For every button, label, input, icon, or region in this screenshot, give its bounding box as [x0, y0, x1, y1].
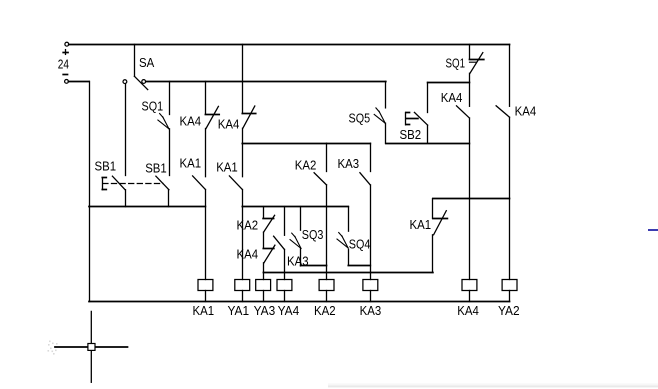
wire bottom bus [89, 301, 510, 303]
svg-text:SQ1: SQ1 [142, 99, 164, 114]
faint grid speckle [48, 341, 58, 355]
pushbutton SB1 (right pole) [156, 176, 169, 190]
contact SQ1 NC (top right) [469, 44, 471, 59]
cursor crosshair vertical [90, 311, 92, 382]
contact KA4 NC (second) [242, 113, 255, 115]
coil KA4 [462, 280, 477, 291]
SB2 actuator E bracket [405, 113, 407, 125]
contact KA2 NC [263, 207, 265, 219]
limit switch SQ3 [300, 207, 302, 231]
svg-text:KA4: KA4 [457, 303, 479, 318]
wire feed drop from top rail [242, 44, 244, 113]
svg-text:KA1: KA1 [193, 303, 215, 318]
contact KA3 NO [370, 143, 372, 171]
svg-text:KA2: KA2 [295, 157, 317, 172]
svg-text:KA4: KA4 [441, 90, 463, 105]
limit switch SQ4 [348, 207, 350, 232]
faint window edge bottom right [328, 383, 658, 385]
contact KA1 NO (second) [229, 176, 242, 190]
svg-text:YA4: YA4 [278, 303, 300, 318]
coil YA3 [256, 280, 271, 291]
cursor pickbox [88, 344, 95, 351]
contact KA4 NO (YA4 branch) [284, 207, 286, 236]
SB2 actuator dashed link [406, 118, 418, 120]
wire SQ3 to KA2 coil line [301, 265, 327, 267]
contact KA1 NC [432, 199, 434, 219]
contact KA2 NO [326, 143, 328, 171]
minus sign [63, 74, 67, 76]
pushbutton SB1 (left pole) [112, 176, 125, 190]
wire rail C [263, 272, 433, 274]
limit switch SQ1 (left) [169, 81, 171, 114]
svg-text:24: 24 [58, 57, 69, 72]
blue mark right edge [648, 229, 658, 231]
terminal + (supply positive) [65, 42, 69, 46]
wire top rail [69, 44, 510, 46]
svg-text:YA3: YA3 [254, 303, 276, 318]
svg-text:KA1: KA1 [180, 156, 202, 171]
SB1 actuator dashed link [103, 183, 163, 185]
SB1 actuator E bracket [102, 178, 104, 190]
cursor crosshair horizontal [55, 346, 128, 348]
contact KA4 NC (series below KA2) [263, 248, 274, 250]
svg-text:KA2: KA2 [314, 303, 336, 318]
wire rail D [242, 143, 370, 145]
svg-text:SQ1: SQ1 [446, 56, 466, 71]
coil YA4 [277, 280, 292, 291]
svg-text:KA2: KA2 [237, 218, 259, 233]
svg-text:KA4: KA4 [218, 116, 240, 131]
svg-text:KA1: KA1 [410, 217, 432, 232]
wire rail A [89, 206, 205, 208]
terminal - (supply negative) [65, 80, 69, 84]
svg-text:KA4: KA4 [180, 114, 202, 129]
svg-text:KA3: KA3 [338, 156, 360, 171]
wire rail E [386, 143, 470, 145]
svg-text:KA4: KA4 [515, 103, 537, 118]
wire SQ4 to KA3 coil line [348, 265, 370, 267]
svg-text:KA3: KA3 [360, 303, 382, 318]
svg-text:YA1: YA1 [228, 303, 250, 318]
svg-text:YA2: YA2 [498, 303, 520, 318]
coil KA2 [319, 280, 334, 291]
coil KA3 [363, 280, 378, 291]
coil YA2 [502, 280, 517, 291]
pushbutton SB2 [427, 82, 429, 112]
wire second rail [146, 81, 386, 83]
wire SB2 branch [428, 82, 470, 84]
svg-text:KA3: KA3 [287, 254, 309, 269]
limit switch SQ5 [385, 81, 387, 108]
svg-text:SQ3: SQ3 [302, 227, 324, 242]
contact KA1 NO (first) [193, 176, 206, 190]
contact KA4 NO (third) [469, 82, 471, 106]
svg-text:SQ5: SQ5 [349, 110, 371, 125]
svg-text:SB1: SB1 [95, 159, 117, 174]
plus sign [63, 52, 68, 54]
svg-text:SB1: SB1 [145, 161, 167, 176]
coil KA1 [198, 280, 213, 291]
svg-text:KA1: KA1 [216, 160, 238, 175]
svg-text:SB2: SB2 [400, 127, 422, 142]
wire left vertical bus [89, 81, 91, 301]
svg-text:SQ4: SQ4 [349, 237, 371, 252]
svg-text:SA: SA [139, 55, 154, 70]
coil YA1 [235, 280, 250, 291]
wire rail B [242, 206, 348, 208]
svg-text:KA4: KA4 [237, 247, 259, 262]
wire negative to left bus [68, 81, 89, 83]
contact KA4 NO (fourth) [509, 44, 511, 106]
switch SA [134, 44, 136, 76]
wire SA left contact down [125, 84, 127, 176]
wire F (YA2 line to KA1 NC) [433, 198, 510, 200]
contact KA4 NC (first) [205, 81, 207, 114]
